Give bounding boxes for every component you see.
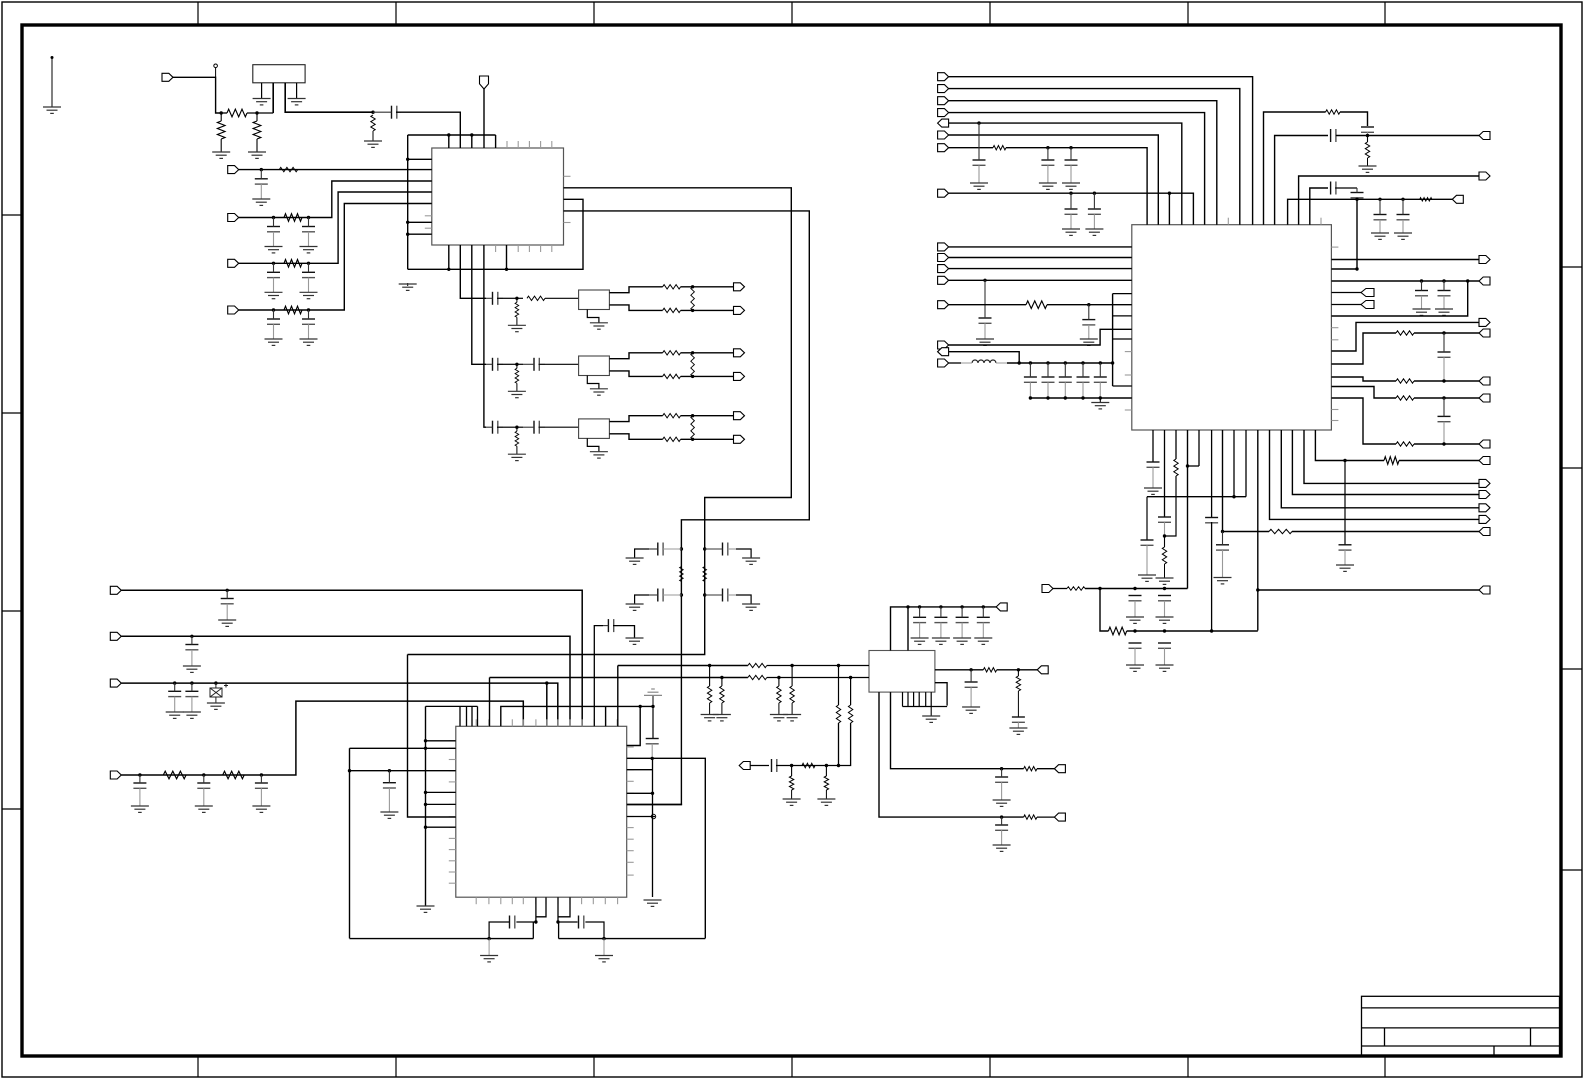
wire	[426, 740, 456, 742]
capacitor C42	[1158, 596, 1171, 618]
node at top-left ground	[51, 56, 54, 59]
ground	[1359, 166, 1377, 172]
wire	[221, 112, 227, 114]
wire rail496	[1147, 496, 1246, 498]
ground	[1126, 617, 1144, 623]
junction	[906, 605, 909, 608]
wire	[736, 549, 751, 558]
wire	[256, 113, 258, 121]
wire	[1006, 148, 1147, 225]
wire	[1331, 398, 1396, 444]
capacitor C12	[486, 421, 503, 434]
junction	[424, 803, 427, 806]
wire	[1175, 430, 1177, 459]
capacitor C16	[221, 590, 234, 620]
ground	[932, 638, 950, 644]
wire	[1188, 465, 1200, 467]
wire	[495, 135, 497, 148]
junction	[406, 158, 409, 161]
junction	[173, 681, 176, 684]
wire	[1165, 476, 1177, 536]
junction	[602, 937, 605, 940]
wire	[1113, 385, 1132, 387]
ground	[590, 389, 608, 395]
wire	[635, 595, 649, 604]
junction	[190, 681, 193, 684]
junction	[1064, 361, 1067, 364]
port P19	[1037, 666, 1048, 674]
wire	[935, 669, 983, 671]
capacitor C48	[1331, 129, 1336, 142]
resistor R16	[748, 675, 767, 679]
wire	[681, 415, 734, 417]
junction	[138, 773, 141, 776]
junction2	[1133, 629, 1136, 632]
capacitor C19	[185, 683, 198, 712]
wire	[605, 706, 607, 726]
wire	[1270, 430, 1480, 519]
capacitor C64	[1012, 717, 1025, 728]
wire row631	[1127, 630, 1258, 632]
junction	[982, 605, 985, 608]
wire	[949, 147, 993, 149]
wire	[609, 353, 662, 359]
port P38	[1479, 132, 1490, 140]
wire	[539, 363, 579, 365]
wire	[1100, 589, 1108, 632]
junction	[969, 668, 972, 671]
wire row590	[1258, 589, 1479, 591]
resistor R36	[848, 705, 852, 723]
junction	[691, 309, 694, 312]
capacitor C17	[185, 636, 198, 666]
port P55	[1479, 528, 1490, 536]
capacitor C27	[579, 916, 584, 929]
wire	[825, 790, 827, 799]
wire	[721, 703, 723, 715]
wire	[471, 706, 473, 726]
junction	[1029, 396, 1032, 399]
port P29	[938, 189, 949, 197]
junction	[1046, 396, 1049, 399]
node open pin	[214, 64, 218, 68]
junction	[1069, 146, 1072, 149]
resistor R8	[284, 306, 302, 314]
balun T3	[579, 419, 610, 439]
ground	[364, 141, 382, 147]
resistor R29	[1384, 457, 1399, 465]
wire	[949, 279, 1132, 281]
wire	[949, 268, 1132, 270]
wire	[1331, 199, 1357, 269]
junction	[837, 764, 840, 767]
capacitor C5	[267, 263, 280, 292]
capacitor C15	[649, 589, 681, 602]
resistor R23	[1326, 110, 1340, 114]
wire	[907, 607, 909, 651]
capacitor C9	[486, 292, 503, 305]
U4 bottom pin drops	[903, 692, 932, 706]
port P47	[1479, 377, 1490, 385]
wire	[949, 135, 1159, 225]
capacitor C41	[1082, 305, 1095, 339]
resistor Rp721	[720, 686, 724, 703]
wire	[1113, 338, 1132, 340]
capacitor C26	[977, 607, 990, 638]
capacitor C27	[1041, 148, 1054, 183]
port P36	[938, 348, 949, 356]
capacitor C24	[603, 619, 618, 632]
inductor L1	[515, 302, 519, 317]
wire	[426, 803, 456, 805]
wire	[239, 192, 432, 263]
capacitor C14	[649, 543, 681, 556]
ground	[626, 638, 644, 644]
wire	[594, 626, 603, 727]
junction	[307, 262, 310, 265]
capacitor C13	[523, 421, 545, 434]
port P26	[938, 119, 949, 127]
ground	[218, 620, 236, 626]
ground	[1144, 488, 1162, 494]
port P3	[228, 166, 239, 174]
resistor R21	[993, 146, 1006, 150]
wire	[930, 707, 932, 717]
port P57	[1042, 585, 1053, 593]
wire	[220, 139, 222, 152]
junction	[272, 308, 275, 311]
wire	[1414, 332, 1479, 334]
ground	[300, 247, 318, 253]
junction	[1098, 587, 1101, 590]
wire	[516, 364, 518, 368]
wire	[949, 304, 1026, 306]
wire row768.7	[891, 692, 1024, 769]
wire	[1414, 380, 1479, 382]
junction	[1018, 361, 1021, 364]
wire	[949, 246, 1132, 248]
wire	[1017, 691, 1019, 717]
junction	[534, 920, 537, 923]
ground	[962, 707, 980, 713]
wire	[850, 678, 852, 706]
wire	[1099, 398, 1101, 403]
wire	[516, 383, 518, 391]
capacitor C25	[383, 771, 396, 812]
capacitor C7	[267, 310, 280, 339]
junction	[691, 351, 694, 354]
wire	[1331, 292, 1361, 294]
inductor L9	[972, 360, 996, 363]
wire cap-bank top rail	[1007, 294, 1113, 363]
resistor R20	[1024, 815, 1037, 819]
capacitor C28	[1065, 148, 1078, 183]
port P4	[228, 214, 239, 222]
junction	[825, 764, 828, 767]
wire	[459, 706, 461, 726]
ground	[248, 152, 266, 158]
IC U2	[1132, 225, 1332, 430]
junction	[1099, 361, 1102, 364]
resistor R3	[253, 121, 261, 139]
junction	[307, 216, 310, 219]
junction	[1232, 495, 1235, 498]
resistor R10	[663, 285, 681, 289]
junction	[1163, 587, 1166, 590]
wire	[997, 669, 1037, 671]
wire row135.5	[1275, 136, 1328, 225]
wire	[609, 416, 662, 422]
capacitor C47	[1361, 127, 1374, 136]
resistor R13	[223, 771, 245, 779]
port P17	[739, 762, 750, 770]
wire row281	[1331, 280, 1479, 282]
ground	[212, 152, 230, 158]
wire	[121, 683, 558, 726]
wire	[459, 135, 461, 148]
regulator U5 body	[253, 65, 305, 83]
junction	[1099, 396, 1102, 399]
wire riser pin489	[489, 678, 491, 727]
capacitor C36	[1374, 199, 1387, 233]
wire	[408, 188, 792, 655]
wire	[949, 362, 961, 364]
resistor R15	[789, 776, 793, 790]
ground	[166, 712, 184, 718]
junction	[556, 920, 559, 923]
wire	[483, 89, 485, 148]
ground	[183, 666, 201, 672]
junction	[703, 593, 706, 596]
ground	[380, 812, 398, 818]
port P31	[938, 265, 949, 273]
capacitor C61	[1205, 518, 1218, 523]
junction	[388, 769, 391, 772]
wire	[587, 376, 599, 389]
wire	[1037, 768, 1054, 770]
ground	[1394, 233, 1412, 239]
junction	[790, 764, 793, 767]
capacitor C56	[1438, 398, 1451, 444]
wire	[1037, 816, 1054, 818]
junction	[1000, 815, 1003, 818]
wire rect bottom right	[559, 938, 706, 940]
wire	[557, 897, 559, 922]
port P23	[938, 85, 949, 93]
ground	[265, 247, 283, 253]
ground	[590, 452, 608, 458]
wire	[838, 666, 840, 706]
junction	[651, 705, 654, 708]
wire	[791, 766, 793, 777]
wire	[1245, 430, 1247, 497]
junction	[1366, 134, 1369, 137]
ground	[183, 712, 201, 718]
wire	[1211, 522, 1213, 631]
port P29	[938, 243, 949, 251]
wire pin4 U5	[296, 83, 298, 98]
port P30	[938, 254, 949, 262]
wire	[1335, 187, 1357, 189]
balun T2	[579, 356, 610, 376]
ground	[480, 956, 498, 962]
wire	[1292, 430, 1479, 495]
junction	[1343, 459, 1346, 462]
wire U3 left bus	[425, 706, 427, 906]
wire	[506, 245, 508, 269]
port P42	[1479, 277, 1490, 285]
ground	[1371, 233, 1389, 239]
wire	[949, 257, 1132, 259]
inductor L7	[515, 431, 519, 446]
junction	[190, 635, 193, 638]
capacitor C35	[1094, 363, 1107, 398]
port P11	[734, 412, 745, 420]
ground	[644, 900, 662, 906]
wire	[791, 703, 793, 715]
ground	[974, 638, 992, 644]
wire row 677.5	[490, 677, 748, 679]
port P35	[938, 341, 949, 349]
resistor R19	[1024, 767, 1037, 771]
wire	[497, 363, 511, 365]
capacitor C57	[1339, 545, 1352, 565]
wire	[121, 590, 582, 726]
wire	[558, 921, 578, 923]
port P34	[938, 301, 949, 309]
wire cap-bank bottom rail	[1030, 397, 1131, 399]
wire	[448, 245, 450, 269]
capacitor C10	[486, 358, 503, 371]
title block	[1362, 996, 1560, 1056]
wire bus branch	[408, 233, 432, 235]
inductor L7	[680, 567, 684, 582]
capacitor C40	[1129, 596, 1142, 618]
junction	[1378, 198, 1381, 201]
capacitor C24	[934, 607, 947, 638]
wire	[1113, 315, 1132, 317]
junction	[255, 111, 258, 114]
junction	[1442, 331, 1445, 334]
junction	[424, 739, 427, 742]
wire	[511, 363, 523, 365]
wire	[627, 758, 706, 938]
junction	[1081, 361, 1084, 364]
wire	[1281, 430, 1479, 508]
inductor lead	[996, 362, 1007, 364]
IC U4	[869, 651, 935, 693]
wire riser pin617	[617, 666, 619, 727]
wire	[516, 298, 518, 302]
junction	[720, 676, 723, 679]
ground	[742, 604, 760, 610]
wire row188	[1310, 188, 1328, 225]
capacitor C16	[705, 543, 736, 556]
ground	[1126, 665, 1144, 671]
wire	[1113, 293, 1132, 295]
junction	[406, 233, 409, 236]
ground	[300, 292, 318, 298]
port P39	[1479, 172, 1490, 180]
junction	[406, 221, 409, 224]
wire row460	[1315, 430, 1384, 461]
wire	[1198, 430, 1200, 466]
capacitor C43	[1158, 643, 1171, 665]
wire	[1047, 304, 1132, 306]
capacitor C31	[1024, 363, 1037, 398]
wire	[949, 193, 1194, 225]
wire	[558, 897, 570, 917]
ground	[265, 339, 283, 345]
wire	[535, 897, 537, 922]
wire	[609, 287, 662, 293]
wire	[652, 695, 654, 706]
wire	[778, 703, 780, 715]
ground	[701, 715, 719, 721]
resistor R30	[1269, 529, 1292, 533]
port P10	[734, 372, 745, 380]
wire	[1257, 430, 1259, 631]
junction	[1256, 588, 1259, 591]
resistor R33	[1108, 627, 1126, 635]
wire	[1164, 430, 1166, 517]
wire	[497, 426, 511, 428]
junction	[447, 268, 450, 271]
port P8	[734, 306, 745, 314]
ground	[399, 284, 417, 290]
wire	[652, 706, 654, 738]
port P27	[938, 131, 949, 139]
port P16	[110, 771, 121, 779]
wire	[1344, 461, 1346, 545]
wire	[239, 169, 432, 171]
wire	[681, 286, 734, 288]
wire	[1331, 304, 1361, 306]
resistor R34	[824, 776, 828, 790]
wire	[350, 747, 426, 749]
wire	[545, 297, 579, 299]
port P41	[1479, 256, 1490, 264]
capacitor C30	[1088, 193, 1101, 229]
junction	[1466, 279, 1469, 282]
ground	[922, 716, 940, 722]
wire	[776, 723, 839, 766]
resistor R24	[1365, 142, 1369, 158]
inductor L10	[1420, 198, 1432, 202]
port P21	[1054, 813, 1065, 821]
wire	[949, 89, 1240, 225]
U3 pin stubs	[449, 719, 634, 904]
junction	[470, 133, 473, 136]
ground	[953, 638, 971, 644]
junction2	[1163, 629, 1166, 632]
port P32	[938, 276, 949, 284]
junction	[680, 547, 683, 550]
ground	[911, 638, 929, 644]
wire	[247, 112, 273, 114]
ground	[1009, 728, 1027, 734]
U2 unconnected pin stubs	[1125, 218, 1339, 421]
wire	[558, 922, 560, 939]
resistor R1	[227, 109, 247, 117]
ground	[626, 558, 644, 564]
resistor R28	[1396, 442, 1414, 446]
wire	[516, 427, 518, 431]
wire	[778, 678, 780, 687]
junction	[1029, 361, 1032, 364]
wire	[426, 747, 456, 749]
wire	[681, 352, 734, 354]
